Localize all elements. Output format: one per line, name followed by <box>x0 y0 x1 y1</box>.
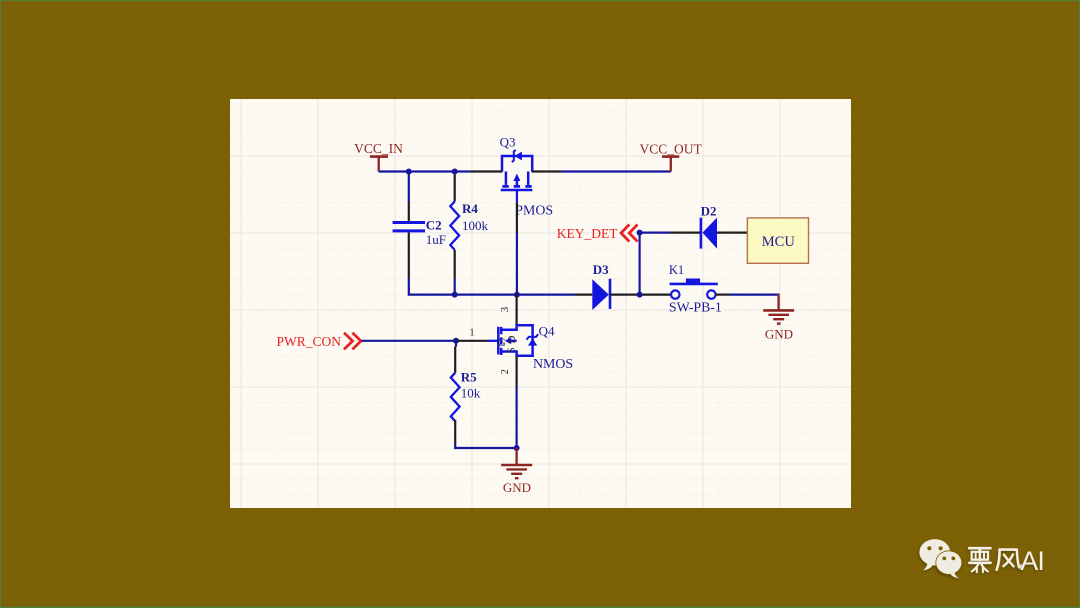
svg-text:VCC_IN: VCC_IN <box>354 141 403 156</box>
svg-text:SW-PB-1: SW-PB-1 <box>669 300 722 315</box>
junction node GND bottom <box>514 445 520 451</box>
schematic sheet <box>230 99 851 508</box>
watermark text 霁风AI <box>969 548 1021 572</box>
svg-text:K1: K1 <box>669 263 684 277</box>
svg-text:VCC_OUT: VCC_OUT <box>639 141 702 156</box>
wire C2 bottom corner <box>408 278 410 295</box>
wire Q3 gate down to mid rail <box>516 233 518 295</box>
svg-text:NMOS: NMOS <box>533 357 573 372</box>
svg-text:GND: GND <box>765 326 793 341</box>
wire KEY_DET to D2 <box>640 232 670 234</box>
watermark wechat icon <box>919 539 962 578</box>
wire mid rail <box>409 294 575 296</box>
wire R5 top stub <box>455 341 457 347</box>
power port VCC_OUT <box>639 141 702 171</box>
pin D2 anode to MCU <box>717 232 747 234</box>
wire VCC_IN to Q3 source <box>379 170 471 172</box>
svg-text:KEY_DET: KEY_DET <box>557 226 618 241</box>
svg-text:100k: 100k <box>462 218 489 233</box>
transistor Q4 NMOS <box>488 324 574 373</box>
svg-text:2: 2 <box>500 369 511 374</box>
resistor R4 <box>450 174 488 278</box>
wire KEY_DET vertical <box>638 233 640 295</box>
pin Q3 gate <box>516 202 518 233</box>
svg-text:10k: 10k <box>461 386 481 401</box>
pin Q4 source with number 2 <box>500 356 517 386</box>
pin D3 anode <box>575 294 592 296</box>
wire Q3 drain to VCC_OUT <box>562 170 671 172</box>
junction node at C2 top <box>406 169 412 175</box>
wire R4 bottom stub <box>454 279 456 295</box>
wire C2 branch top <box>408 172 410 203</box>
svg-text:MCU: MCU <box>762 234 796 250</box>
svg-text:R4: R4 <box>462 201 478 216</box>
svg-text:S: S <box>507 347 518 353</box>
port PWR_CON <box>276 333 361 350</box>
svg-text:PWR_CON: PWR_CON <box>276 334 341 349</box>
junction node at R4 top <box>452 169 458 175</box>
svg-text:Q4: Q4 <box>539 324 555 339</box>
svg-text:1: 1 <box>469 327 474 338</box>
junction node R5 top <box>453 338 459 344</box>
wire K1 to GND corner <box>730 294 779 296</box>
svg-text:1uF: 1uF <box>426 232 446 247</box>
pin Q4 drain with number 3 <box>500 295 517 326</box>
svg-text:PMOS: PMOS <box>515 203 553 218</box>
junction node R4 bottom <box>452 292 458 298</box>
svg-text:D2: D2 <box>701 203 717 218</box>
svg-text:G: G <box>497 335 506 349</box>
pin D3 cathode to K1 <box>610 294 671 296</box>
ground GND right <box>763 294 794 342</box>
MCU block <box>747 218 808 263</box>
junction node gate column <box>514 292 520 298</box>
power port VCC_IN <box>354 141 403 172</box>
ground GND bottom <box>501 448 532 495</box>
svg-text:R5: R5 <box>461 370 477 385</box>
pin Q3 drain (right) <box>532 170 562 172</box>
svg-text:D3: D3 <box>593 262 609 277</box>
svg-text:Q3: Q3 <box>500 135 516 150</box>
wire PWR_CON to gate node <box>361 340 456 342</box>
pin Q4 gate with number 1 <box>456 327 488 341</box>
pin K1 right <box>716 294 730 296</box>
svg-text:C2: C2 <box>426 218 442 233</box>
wire Q4 source down <box>515 387 517 449</box>
svg-text:AI: AI <box>1020 546 1044 576</box>
transistor Q3 PMOS <box>500 135 553 219</box>
pin Q3 source (left) <box>471 170 503 172</box>
sheet grid <box>256 99 841 508</box>
capacitor C2 <box>393 202 446 278</box>
svg-text:D: D <box>506 335 518 343</box>
junction node KEY_DET column <box>637 292 643 298</box>
pin D2 cathode <box>670 232 701 234</box>
resistor R5 <box>451 347 481 444</box>
diode D3 <box>592 262 610 310</box>
port KEY_DET <box>557 225 638 242</box>
node KEY_DET <box>637 230 643 236</box>
svg-text:3: 3 <box>500 307 511 312</box>
switch K1 <box>669 263 722 315</box>
diode D2 <box>701 203 717 248</box>
wire R5 bottom to GND node <box>455 443 516 448</box>
svg-text:GND: GND <box>503 480 531 495</box>
